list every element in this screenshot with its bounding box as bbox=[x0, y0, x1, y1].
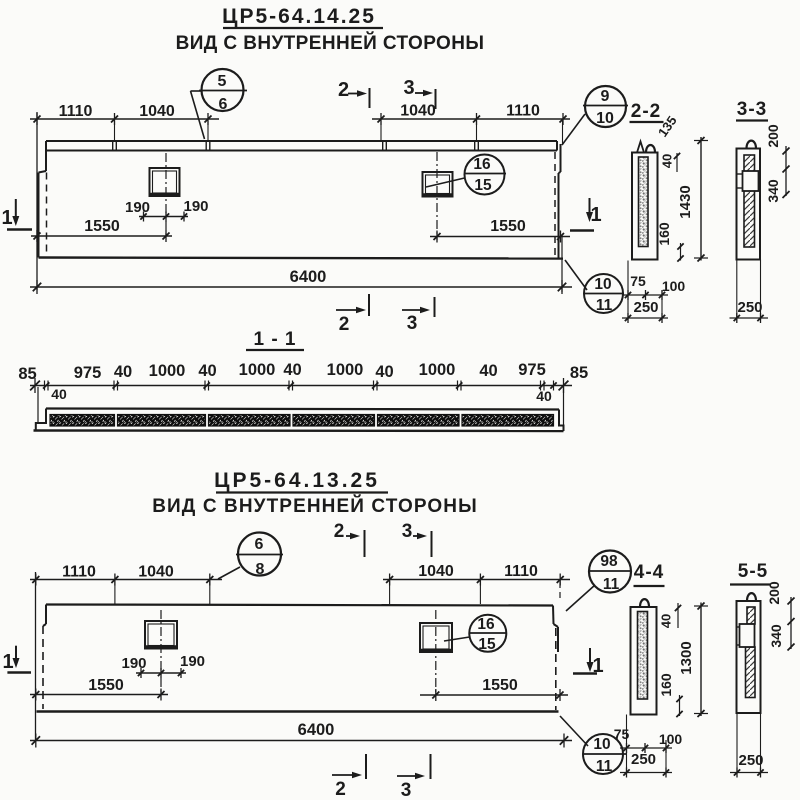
opening O1 (bottom drawing) bbox=[145, 610, 178, 695]
svg-text:1000: 1000 bbox=[327, 361, 364, 379]
callout circle 10/11 (top) bbox=[565, 260, 624, 314]
svg-text:1300: 1300 bbox=[678, 641, 695, 674]
svg-text:15: 15 bbox=[474, 177, 492, 194]
callout circle 6/8 bbox=[218, 533, 283, 580]
svg-text:1000: 1000 bbox=[149, 362, 186, 380]
section view 5-5 label bbox=[730, 561, 770, 585]
svg-text:10: 10 bbox=[596, 110, 614, 127]
dim texts 1-1 bbox=[18, 361, 588, 404]
opening O1 (top drawing) bbox=[149, 153, 180, 238]
section 2-2 dim 40 and 135 bbox=[655, 113, 680, 172]
svg-text:1110: 1110 bbox=[504, 563, 538, 580]
svg-text:10: 10 bbox=[594, 276, 611, 293]
dim line top-right 1040+1110 bbox=[372, 103, 570, 126]
svg-text:1040: 1040 bbox=[400, 103, 436, 120]
dim 1550 right (top) bbox=[430, 218, 570, 243]
section mark 2 (top) bbox=[338, 79, 370, 108]
section 2-2 dim 160 bbox=[656, 222, 684, 262]
svg-text:75: 75 bbox=[614, 726, 630, 742]
svg-text:250: 250 bbox=[633, 299, 658, 316]
svg-text:3: 3 bbox=[402, 521, 413, 542]
section 4-4 body bbox=[631, 599, 657, 714]
svg-text:190: 190 bbox=[125, 199, 150, 216]
svg-text:1000: 1000 bbox=[239, 361, 276, 379]
callout circle 16/15 (bottom) bbox=[444, 615, 506, 653]
1-1 body outline bbox=[34, 386, 564, 431]
section 1-1 title bbox=[246, 329, 304, 350]
section mark 2 (bottom top) bbox=[334, 521, 365, 557]
section mark 3 (bottom low) bbox=[397, 754, 431, 800]
title CR5-64.13.25 bbox=[214, 469, 388, 493]
dim line 1-1 bbox=[30, 378, 572, 393]
svg-text:1550: 1550 bbox=[490, 218, 526, 235]
svg-text:6400: 6400 bbox=[290, 268, 327, 286]
svg-text:250: 250 bbox=[738, 752, 763, 769]
svg-text:1000: 1000 bbox=[419, 361, 456, 379]
svg-text:1550: 1550 bbox=[88, 677, 124, 694]
svg-text:40: 40 bbox=[375, 363, 393, 381]
svg-text:1040: 1040 bbox=[138, 564, 174, 581]
svg-text:ЦР5-64.13.25: ЦР5-64.13.25 bbox=[214, 469, 380, 492]
dim 6400 (top) bbox=[30, 235, 572, 294]
svg-text:10: 10 bbox=[593, 736, 610, 753]
title CR5-64.14.25 bbox=[222, 5, 383, 28]
callout circle 5/6 bbox=[191, 69, 248, 139]
svg-text:1430: 1430 bbox=[677, 185, 694, 218]
dim 1550 left (bottom) bbox=[30, 677, 168, 701]
dim line bottom-left 1110+1040 bbox=[30, 564, 222, 586]
svg-text:250: 250 bbox=[631, 751, 656, 768]
dim line top-left 1110+1040 bbox=[30, 103, 219, 125]
svg-text:40: 40 bbox=[536, 388, 552, 404]
1-1 hatched band bbox=[50, 415, 554, 427]
section 4-4 dim 160 bbox=[658, 673, 683, 717]
svg-text:1550: 1550 bbox=[482, 677, 518, 694]
section view 3-3 label bbox=[736, 99, 768, 121]
svg-text:6400: 6400 bbox=[298, 721, 335, 739]
section 5-5 dim 250 bbox=[730, 713, 768, 778]
section 5-5 body bbox=[737, 593, 761, 713]
svg-text:6: 6 bbox=[255, 536, 264, 553]
extension lines top dims bbox=[37, 112, 563, 290]
section mark 3 (mid) bbox=[402, 297, 435, 334]
panel P13 outline bbox=[37, 605, 559, 712]
section 2-2 body bbox=[632, 142, 658, 260]
svg-text:1 - 1: 1 - 1 bbox=[253, 329, 296, 350]
svg-text:ВИД С ВНУТРЕННЕЙ СТОРОНЫ: ВИД С ВНУТРЕННЕЙ СТОРОНЫ bbox=[176, 32, 485, 54]
panel P14 top strip bbox=[46, 141, 557, 151]
opening O2 (top drawing) bbox=[422, 152, 453, 240]
svg-text:40: 40 bbox=[659, 614, 674, 628]
section mark 3 (bottom top) bbox=[402, 521, 432, 557]
svg-text:5: 5 bbox=[218, 73, 227, 90]
section 5-5 dims 200 340 bbox=[766, 581, 795, 650]
svg-text:190: 190 bbox=[121, 655, 146, 672]
section view 2-2 label bbox=[630, 101, 664, 122]
callout circle 10/11 (bottom) bbox=[560, 716, 627, 775]
svg-text:2: 2 bbox=[334, 521, 345, 542]
svg-text:3: 3 bbox=[407, 313, 418, 334]
svg-text:190: 190 bbox=[183, 198, 208, 215]
callout circle 98/11 bbox=[566, 551, 631, 612]
svg-text:16: 16 bbox=[477, 616, 495, 633]
svg-text:3: 3 bbox=[403, 77, 414, 99]
section mark 2 (mid) bbox=[336, 294, 369, 335]
svg-text:1: 1 bbox=[1, 207, 12, 229]
section mark 1 right (top) bbox=[570, 198, 602, 231]
opening O2 (bottom drawing) bbox=[420, 610, 453, 697]
svg-text:1: 1 bbox=[2, 651, 13, 673]
section 4-4 dim 1300 bbox=[678, 603, 708, 718]
section 2-2 dim 1430 bbox=[677, 137, 708, 262]
section 3-3 dim 250 bbox=[730, 260, 769, 324]
svg-text:75: 75 bbox=[630, 273, 646, 289]
svg-text:1110: 1110 bbox=[506, 103, 540, 120]
svg-text:3: 3 bbox=[401, 780, 412, 800]
callout circle 9/10 bbox=[562, 86, 628, 145]
svg-text:40: 40 bbox=[114, 363, 132, 381]
section 4-4 dims 75 100 250 bbox=[614, 715, 683, 778]
svg-text:5-5: 5-5 bbox=[738, 561, 768, 582]
svg-text:1110: 1110 bbox=[59, 103, 93, 120]
svg-text:ЦР5-64.14.25: ЦР5-64.14.25 bbox=[222, 5, 376, 28]
svg-text:40: 40 bbox=[479, 362, 497, 380]
svg-text:85: 85 bbox=[18, 365, 36, 383]
svg-text:9: 9 bbox=[601, 88, 610, 105]
svg-text:40: 40 bbox=[198, 362, 216, 380]
svg-text:8: 8 bbox=[256, 561, 265, 578]
dim 190+190 (bottom) bbox=[121, 653, 205, 678]
svg-text:250: 250 bbox=[737, 299, 762, 316]
dim 6400 (bottom) bbox=[30, 721, 572, 748]
svg-text:975: 975 bbox=[518, 361, 546, 379]
svg-text:160: 160 bbox=[658, 673, 674, 697]
svg-text:98: 98 bbox=[600, 553, 618, 570]
dim line bottom-right 1040+1110 bbox=[383, 563, 570, 586]
svg-text:2: 2 bbox=[339, 314, 350, 335]
section 2-2 dims 75 100 250 bbox=[622, 261, 685, 324]
dim 190+190 (top) bbox=[125, 198, 209, 222]
svg-text:340: 340 bbox=[768, 624, 784, 648]
callout circle 16/15 (top) bbox=[426, 155, 506, 195]
panel P14 outline bbox=[39, 144, 564, 259]
svg-text:ВИД С ВНУТРЕННЕЙ СТОРОНЫ: ВИД С ВНУТРЕННЕЙ СТОРОНЫ bbox=[152, 495, 478, 517]
svg-text:40: 40 bbox=[51, 386, 67, 402]
svg-text:11: 11 bbox=[596, 758, 613, 775]
svg-text:11: 11 bbox=[596, 297, 613, 314]
svg-text:340: 340 bbox=[765, 179, 781, 203]
svg-text:975: 975 bbox=[74, 364, 102, 382]
svg-text:200: 200 bbox=[766, 581, 782, 605]
svg-text:4-4: 4-4 bbox=[634, 562, 664, 583]
svg-text:1: 1 bbox=[590, 204, 601, 226]
dim 1550 right (bottom) bbox=[420, 677, 568, 701]
svg-text:6: 6 bbox=[219, 96, 228, 113]
svg-text:100: 100 bbox=[662, 278, 686, 294]
svg-text:2: 2 bbox=[335, 779, 346, 800]
svg-text:3-3: 3-3 bbox=[737, 99, 767, 120]
dim 1550 left (top) bbox=[31, 218, 172, 242]
section 4-4 dim 40 bbox=[659, 603, 682, 628]
svg-text:1040: 1040 bbox=[139, 103, 175, 120]
section view 4-4 label bbox=[634, 562, 665, 586]
svg-text:2-2: 2-2 bbox=[631, 101, 661, 122]
svg-text:1110: 1110 bbox=[62, 564, 96, 581]
section mark 2 (bottom low) bbox=[332, 754, 366, 800]
svg-text:2: 2 bbox=[338, 79, 349, 101]
svg-text:85: 85 bbox=[570, 364, 588, 382]
svg-text:200: 200 bbox=[765, 124, 781, 148]
svg-text:190: 190 bbox=[180, 653, 205, 670]
subtitle VID S VNUTRENNEY STORONY (bottom) bbox=[152, 495, 478, 517]
svg-text:160: 160 bbox=[656, 222, 672, 246]
section 3-3 dims 200 340 bbox=[765, 124, 790, 203]
svg-text:16: 16 bbox=[473, 156, 491, 173]
svg-text:11: 11 bbox=[603, 576, 620, 593]
extension lines bottom dims bbox=[36, 572, 561, 742]
section 3-3 body bbox=[737, 141, 761, 260]
svg-text:40: 40 bbox=[660, 154, 675, 168]
section mark 1 left (bottom) bbox=[2, 646, 31, 673]
svg-text:40: 40 bbox=[283, 361, 301, 379]
subtitle VID S VNUTRENNEY STORONY (top) bbox=[176, 32, 485, 54]
section mark 1 left (top) bbox=[1, 199, 32, 230]
section mark 3 (top) bbox=[403, 77, 435, 109]
svg-text:1040: 1040 bbox=[418, 563, 454, 580]
svg-text:1550: 1550 bbox=[84, 218, 120, 235]
section mark 1 right (bottom) bbox=[573, 648, 604, 677]
svg-text:100: 100 bbox=[659, 731, 683, 747]
svg-text:15: 15 bbox=[478, 636, 496, 653]
